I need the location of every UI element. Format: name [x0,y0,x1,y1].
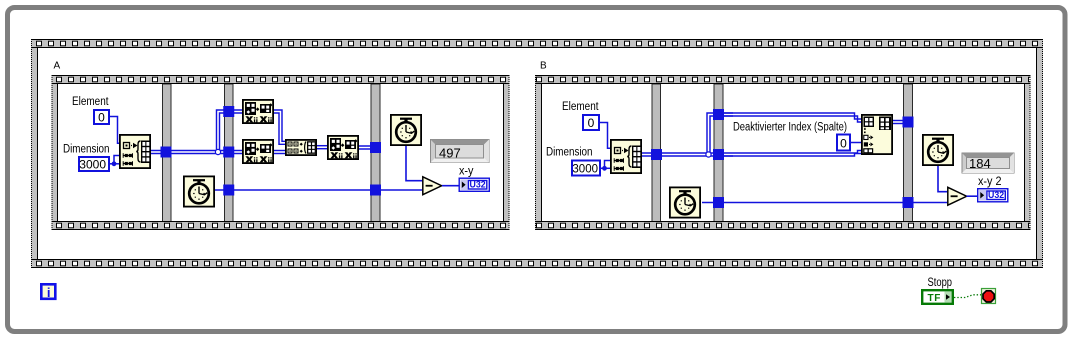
svg-text:0: 0 [588,116,595,130]
svg-text:Element: Element [562,101,599,113]
svg-text:x-y: x-y [459,166,474,178]
svg-text:i: i [47,285,51,300]
svg-text:A: A [54,61,61,72]
svg-text:3000: 3000 [572,164,598,176]
svg-text:3000: 3000 [79,158,106,172]
svg-text:Dimension: Dimension [546,147,593,159]
svg-text:TF: TF [928,293,941,304]
svg-text:0: 0 [98,111,105,125]
svg-text:497: 497 [439,146,461,161]
svg-text:184: 184 [969,156,991,171]
svg-text:Stopp: Stopp [928,277,953,289]
svg-text:Deaktivierter Index (Spalte): Deaktivierter Index (Spalte) [733,122,847,134]
svg-text:Element: Element [72,96,109,108]
svg-text:x-y 2: x-y 2 [978,176,1002,188]
svg-text:B: B [540,61,547,72]
svg-text:Dimension: Dimension [63,144,110,156]
svg-text:0: 0 [840,137,847,151]
